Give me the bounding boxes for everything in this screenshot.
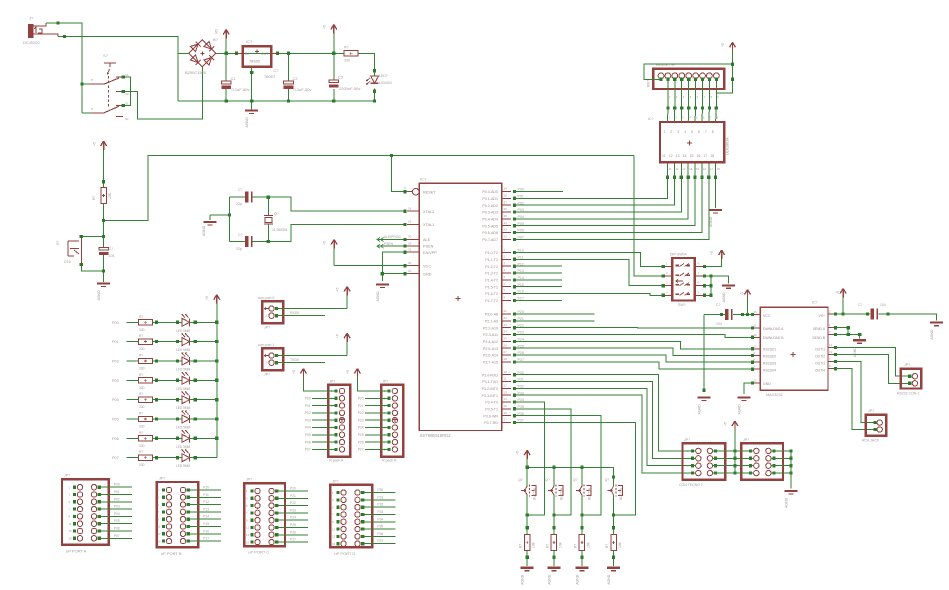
supply VCC arrow led array [205, 295, 220, 323]
resistor R q4 [605, 515, 622, 566]
pin P1.0 MCU [485, 248, 524, 255]
wire MAX gnd pin [738, 383, 753, 414]
svg-text:SEND B: SEND B [812, 336, 825, 340]
svg-text:14: 14 [504, 397, 508, 401]
svg-text:13: 13 [246, 533, 250, 537]
svg-text:13: 13 [158, 532, 162, 536]
svg-text:330: 330 [139, 425, 145, 429]
svg-text:P07: P07 [112, 456, 119, 460]
connector uP PORT D [330, 479, 395, 556]
svg-text:P06: P06 [114, 527, 120, 531]
svg-text:Q?: Q? [573, 478, 578, 482]
svg-text:EA/VPP: EA/VPP [423, 251, 437, 255]
svg-text:21: 21 [504, 309, 508, 313]
resistor R q2 [545, 515, 562, 566]
svg-text:16: 16 [754, 310, 758, 314]
wire P0.1 to ULN [515, 176, 670, 199]
resistor R1 power led [344, 46, 358, 63]
LED D5 [176, 372, 217, 391]
capacitor C2 [284, 53, 312, 101]
svg-text:P0.3-AD3: P0.3-AD3 [482, 211, 498, 215]
svg-text:IC?: IC? [246, 39, 253, 44]
svg-text:OUT/2: OUT/2 [815, 355, 825, 359]
svg-text:11: 11 [504, 377, 507, 381]
svg-text:R?: R? [519, 544, 523, 548]
svg-text:15: 15 [69, 537, 73, 541]
pin P2.6 MCU [483, 350, 524, 357]
pin ALE MCU [407, 235, 431, 242]
svg-text:P05: P05 [114, 519, 120, 523]
svg-text:JP?: JP? [246, 478, 252, 482]
pin P0.7 MCU [482, 235, 524, 242]
svg-text:10K: 10K [618, 541, 622, 548]
svg-text:RESNET 9P: RESNET 9P [656, 63, 676, 67]
svg-text:22p: 22p [236, 202, 242, 206]
pin P1.6 MCU [485, 289, 524, 296]
svg-text:RESET: RESET [423, 190, 436, 194]
svg-text:P00: P00 [114, 483, 120, 487]
svg-text:P37: P37 [377, 539, 383, 543]
pin P0.3 MCU [482, 207, 524, 214]
wire EA to gnd [381, 251, 407, 281]
svg-text:P34: P34 [377, 517, 383, 521]
pin P1.2 MCU [485, 261, 524, 268]
svg-text:S1: S1 [125, 73, 129, 77]
wire P1.0 to dip sw1 [515, 253, 664, 267]
pin P2.2 MCU [483, 323, 524, 330]
svg-text:VD: VD [215, 29, 219, 34]
svg-text:LED 5MM: LED 5MM [176, 348, 191, 352]
svg-text:0.1uF-50v: 0.1uF-50v [232, 87, 250, 92]
svg-text:12: 12 [504, 384, 508, 388]
svg-text:18: 18 [710, 154, 714, 158]
wire P0.2 to ULN [515, 176, 677, 206]
svg-text:29: 29 [408, 241, 412, 245]
svg-text:R?: R? [545, 544, 549, 548]
svg-text:P20: P20 [358, 397, 364, 401]
resistor R led2 [112, 354, 182, 371]
svg-text:IC?: IC? [812, 301, 818, 305]
svg-text:RXD0: RXD0 [290, 311, 299, 315]
svg-text:16: 16 [697, 154, 701, 158]
svg-text:OUT/1: OUT/1 [815, 348, 825, 352]
svg-text:P23: P23 [290, 508, 296, 512]
pin P2.4 MCU [483, 337, 524, 344]
svg-text:330: 330 [139, 444, 145, 448]
svg-text:12: 12 [754, 344, 758, 348]
ground reset [97, 282, 110, 284]
resistor R led3 [112, 373, 182, 390]
svg-text:BUZ71A: BUZ71A [619, 487, 623, 500]
wire P0.7 to ULN [515, 176, 711, 240]
svg-text:37: 37 [504, 200, 508, 204]
svg-text:P11: P11 [203, 493, 209, 497]
svg-text:33: 33 [504, 228, 508, 232]
wire P3.0 to con tecno [515, 375, 695, 451]
wire MAX232 right pin stubs [828, 310, 837, 371]
pin P3.7 MCU [484, 418, 524, 425]
svg-text:P13: P13 [203, 507, 209, 511]
svg-text:R?: R? [139, 373, 143, 377]
svg-text:B?: B? [213, 37, 219, 42]
ground MCU [376, 283, 389, 285]
svg-text:OUT/3: OUT/3 [815, 362, 825, 366]
svg-text:P1.1-T2: P1.1-T2 [485, 258, 498, 262]
svg-text:R?: R? [139, 431, 143, 435]
svg-text:P1.7-T2: P1.7-T2 [485, 299, 498, 303]
svg-text:0.1uF-50v: 0.1uF-50v [294, 87, 312, 92]
svg-text:P2.0-A8: P2.0-A8 [485, 313, 498, 317]
wire P3.4 to transistor Q1 [515, 402, 545, 515]
svg-text:P06: P06 [112, 437, 119, 441]
ground crystal [202, 213, 231, 236]
switch S1 DPDT [82, 53, 129, 121]
switch SW1 DIP block [662, 253, 705, 308]
connector JP com0 [258, 296, 283, 330]
pin PSEN MCU [407, 241, 434, 248]
svg-text:10: 10 [504, 370, 508, 374]
pin P3.1 MCU [482, 377, 524, 384]
wire xtal2 to mcu [268, 197, 406, 213]
supply VCC arrow transistors [516, 450, 531, 467]
svg-text:2200uF-50v: 2200uF-50v [339, 86, 360, 91]
svg-text:GND: GND [763, 382, 771, 386]
svg-text:XTAL2: XTAL2 [423, 210, 434, 214]
svg-text:P2.2-A10: P2.2-A10 [483, 326, 498, 330]
svg-text:11: 11 [754, 324, 757, 328]
svg-text:330: 330 [139, 347, 145, 351]
pin P1.1 MCU [485, 255, 523, 262]
svg-text:15: 15 [690, 154, 694, 158]
svg-text:P06: P06 [305, 440, 311, 444]
svg-text:P04: P04 [305, 426, 311, 430]
svg-text:Q?: Q? [545, 478, 550, 482]
pin P0.5 MCU [482, 221, 524, 228]
svg-text:LED 5MM: LED 5MM [176, 387, 191, 391]
svg-text:P02: P02 [114, 497, 120, 501]
wire switch crossover [122, 75, 131, 107]
svg-text:13: 13 [504, 390, 508, 394]
supply VCC arrow header [292, 369, 336, 392]
ground Q3 [575, 567, 588, 569]
svg-text:15: 15 [246, 540, 250, 544]
svg-text:JP?: JP? [332, 479, 338, 483]
svg-text:+5: +5 [721, 43, 725, 47]
wire reset to long rail [104, 154, 635, 220]
svg-text:25: 25 [504, 337, 508, 341]
svg-text:P14: P14 [203, 515, 209, 519]
svg-text:12: 12 [669, 154, 673, 158]
LED D7 [176, 411, 217, 430]
svg-text:R?: R? [605, 544, 609, 548]
svg-text:RS232/3: RS232/3 [763, 362, 776, 366]
svg-text:13: 13 [682, 167, 686, 171]
svg-text:R pack A: R pack A [329, 459, 344, 463]
svg-text:+5: +5 [336, 287, 340, 291]
svg-text:P3.4-T0: P3.4-T0 [485, 401, 498, 405]
supply VCC arrow resnet [721, 42, 736, 64]
svg-text:104: 104 [109, 254, 115, 258]
svg-text:+5: +5 [835, 291, 839, 295]
wire transistor vcc rail [526, 466, 616, 479]
svg-text:R?: R? [139, 392, 143, 396]
svg-text:P0.2-AD2: P0.2-AD2 [482, 204, 498, 208]
svg-text:LED 5MM: LED 5MM [176, 445, 191, 449]
svg-text:P00: P00 [112, 321, 119, 325]
svg-text:31: 31 [408, 247, 412, 251]
wire P3.5 to transistor Q2 [515, 409, 571, 515]
wire crystal gnd rail [229, 197, 231, 241]
svg-text:P0.5-AD5: P0.5-AD5 [482, 224, 498, 228]
svg-text:P: P [91, 107, 93, 111]
svg-text:AGND: AGND [607, 574, 611, 585]
svg-text:17: 17 [710, 167, 714, 171]
svg-text:+5: +5 [323, 241, 327, 245]
svg-text:JP?: JP? [684, 438, 690, 442]
svg-text:BUZ71A: BUZ71A [559, 487, 563, 500]
ground ULN pin [709, 162, 722, 227]
svg-text:P2.5-A13: P2.5-A13 [483, 347, 498, 351]
svg-text:35: 35 [504, 214, 508, 218]
svg-text:C?: C? [716, 303, 721, 307]
pin P3.5 MCU [485, 404, 524, 411]
wire P2.7 to MAX232 [515, 362, 753, 369]
wire dip rows to gnd [703, 275, 729, 297]
wire led common rail [215, 321, 218, 458]
svg-text:+5: +5 [346, 370, 350, 374]
svg-text:XTAL1: XTAL1 [423, 223, 434, 227]
svg-text:JP?: JP? [329, 379, 335, 383]
svg-text:330: 330 [139, 405, 145, 409]
svg-text:P25: P25 [358, 433, 364, 437]
svg-text:P12: P12 [203, 500, 209, 504]
svg-text:P16: P16 [203, 529, 209, 533]
svg-text:TXD0: TXD0 [290, 358, 299, 362]
supply VCC arrow com1 [277, 333, 351, 355]
svg-text:P2.1-A9: P2.1-A9 [485, 319, 498, 323]
wire MAX out1 to rs232 con [835, 347, 909, 376]
wire +V top rail [216, 52, 375, 71]
svg-text:P2.6-A14: P2.6-A14 [483, 354, 498, 358]
svg-text:7805T: 7805T [264, 74, 276, 79]
svg-text:uP PORT A: uP PORT A [66, 548, 87, 553]
resistor R led0 [112, 315, 182, 332]
pin P3.6 MCU [483, 411, 523, 418]
svg-text:P04: P04 [112, 398, 119, 402]
svg-text:S1: S1 [125, 102, 129, 106]
svg-text:AGND: AGND [547, 574, 551, 585]
svg-text:10K: 10K [558, 541, 562, 548]
svg-text:JP?: JP? [64, 474, 70, 478]
svg-text:DWNLOAD B: DWNLOAD B [763, 336, 784, 340]
transistor Q1 [518, 467, 537, 516]
supply VCC arrow +5V rail [323, 25, 337, 54]
svg-text:AGND: AGND [709, 216, 713, 227]
svg-text:P03: P03 [305, 418, 311, 422]
wire ALE net stub [377, 235, 407, 241]
LED D3 [176, 334, 217, 353]
svg-text:VCC: VCC [423, 264, 431, 268]
svg-text:11.0592M: 11.0592M [272, 228, 287, 232]
svg-text:+5: +5 [292, 370, 296, 374]
svg-text:ALE: ALE [423, 238, 431, 242]
svg-text:P3.1-TXD: P3.1-TXD [482, 380, 498, 384]
svg-text:11: 11 [246, 526, 249, 530]
svg-text:P03: P03 [114, 505, 120, 509]
svg-text:DWNLOAD A: DWNLOAD A [763, 327, 784, 331]
supply VCC arrow at bridge [215, 29, 230, 54]
connector uP PORT C [244, 478, 308, 555]
svg-text:JP?: JP? [159, 477, 165, 481]
svg-text:LED 5MM: LED 5MM [176, 329, 191, 333]
connector uP PORT A [62, 474, 132, 554]
svg-text:AGND: AGND [376, 291, 380, 302]
svg-text:AGND: AGND [575, 574, 579, 585]
LED D2 [176, 314, 217, 333]
LED D4 [176, 353, 217, 372]
svg-text:6: 6 [698, 130, 700, 134]
pin P2.3 MCU [483, 330, 524, 337]
pin XTAL1 MCU [407, 220, 434, 227]
svg-text:P2.7-A15: P2.7-A15 [483, 361, 498, 365]
svg-text:R?: R? [92, 195, 96, 200]
svg-text:P0.7-AD7: P0.7-AD7 [482, 238, 498, 242]
wire com1 data stub [277, 358, 326, 363]
svg-text:330: 330 [344, 59, 350, 63]
wire P3.7 to transistor Q4 [515, 423, 636, 515]
svg-text:JP?: JP? [743, 438, 749, 442]
svg-text:IC?: IC? [648, 117, 654, 121]
wire P2.6 to MAX232 [515, 355, 753, 362]
svg-text:P05: P05 [112, 418, 119, 422]
svg-text:LED 5MM: LED 5MM [176, 406, 191, 410]
wire MAX out3 to rca [835, 362, 875, 423]
wire P1.3 stub [515, 272, 562, 274]
wire bridge AC1 stub [178, 52, 189, 54]
wire ULN bottom stubs [668, 162, 721, 177]
svg-text:2: 2 [670, 130, 672, 134]
wire MCU gnd pin [382, 272, 407, 275]
svg-text:BUZ71A: BUZ71A [533, 487, 537, 500]
svg-text:P02: P02 [112, 360, 119, 364]
wire MAX right pins 2-3 gnd [835, 326, 861, 338]
svg-text:+5: +5 [93, 142, 97, 146]
svg-text:P04: P04 [114, 512, 120, 516]
svg-text:13: 13 [332, 535, 336, 539]
wire button bottom [80, 263, 104, 271]
wire MAX out2 to rs232 con [835, 354, 909, 383]
svg-text:+5: +5 [710, 251, 714, 255]
svg-text:P3.2-INT0: P3.2-INT0 [482, 387, 498, 391]
capacitor C5 xtal [230, 188, 269, 206]
wire reset node [102, 204, 105, 248]
pin P1.3 MCU [485, 268, 524, 275]
wire P0.4 to ULN [515, 176, 690, 219]
LED D8 [176, 430, 217, 449]
svg-text:P24: P24 [358, 426, 364, 430]
svg-text:AGND: AGND [97, 290, 101, 301]
svg-text:R?: R? [139, 354, 143, 358]
connector JP com1 [258, 343, 283, 377]
wire P2.4 to MAX232 [515, 341, 753, 348]
svg-text:LED?: LED? [379, 74, 388, 78]
connector J1 DC power jack [23, 16, 58, 46]
op-amp U1 MCU SST89E58 box [419, 177, 502, 439]
svg-text:P26: P26 [290, 530, 296, 534]
svg-text:P17: P17 [203, 537, 209, 541]
svg-text:P33: P33 [377, 510, 383, 514]
wire P0.5 to ULN [515, 176, 697, 226]
svg-text:22: 22 [504, 316, 508, 320]
svg-text:104: 104 [880, 303, 886, 307]
svg-text:104: 104 [716, 322, 722, 326]
wire P1.6 to dip sw4 [515, 294, 664, 296]
ground max right rail [930, 322, 943, 324]
svg-text:RN?: RN? [647, 80, 651, 87]
ground dip [722, 284, 735, 286]
svg-text:C?: C? [274, 68, 280, 73]
svg-text:330: 330 [139, 463, 145, 467]
svg-text:7: 7 [705, 130, 707, 134]
svg-text:LED 5MM: LED 5MM [176, 426, 191, 430]
svg-text:P3.0-RXD: P3.0-RXD [482, 373, 499, 377]
svg-text:8: 8 [712, 130, 714, 134]
wire P0.0 stub [515, 191, 563, 193]
supply VCC arrow MCU [323, 240, 408, 268]
svg-text:R?: R? [573, 544, 577, 548]
svg-text:R?: R? [139, 334, 143, 338]
svg-text:DT6: DT6 [64, 260, 71, 264]
pin P0.6 MCU [482, 228, 524, 235]
svg-text:1: 1 [664, 130, 666, 134]
svg-text:P25: P25 [290, 523, 296, 527]
svg-text:P22: P22 [358, 411, 364, 415]
svg-text:+5: +5 [724, 422, 728, 426]
pin P3.0 MCU [482, 370, 524, 377]
svg-text:14: 14 [683, 154, 687, 158]
LED D6 [176, 392, 217, 411]
wire P1.2 stub [515, 265, 562, 267]
wire xtal1 to mcu [268, 223, 406, 242]
svg-text:14: 14 [689, 167, 693, 171]
svg-text:12: 12 [676, 167, 680, 171]
svg-text:P3.6-WR: P3.6-WR [483, 414, 498, 418]
svg-text:P07: P07 [114, 534, 120, 538]
svg-text:P1.0-T2: P1.0-T2 [485, 251, 498, 255]
pin P1.7 MCU [485, 296, 524, 303]
svg-text:AGND: AGND [521, 574, 525, 585]
svg-text:18: 18 [717, 167, 721, 171]
svg-text:4: 4 [684, 130, 686, 134]
svg-text:C3: C3 [338, 75, 344, 80]
svg-text:27: 27 [504, 350, 508, 354]
svg-text:RS232/2: RS232/2 [763, 355, 776, 359]
svg-text:22p: 22p [236, 247, 242, 251]
pin P2.7 MCU [483, 357, 524, 364]
svg-text:P: P [91, 78, 93, 82]
svg-text:AGND: AGND [785, 497, 789, 508]
svg-text:23: 23 [504, 323, 508, 327]
wire P3.3 to con tecno [515, 395, 695, 473]
wire regulator gnd pin [250, 67, 253, 101]
resistor R led6 [112, 431, 182, 448]
svg-text:14: 14 [829, 343, 833, 347]
svg-text:P1.2-T2: P1.2-T2 [485, 265, 498, 269]
wire button top [80, 235, 104, 238]
svg-text:32: 32 [504, 235, 508, 239]
svg-text:P3.5-T1: P3.5-T1 [485, 407, 498, 411]
svg-text:15: 15 [754, 379, 758, 383]
